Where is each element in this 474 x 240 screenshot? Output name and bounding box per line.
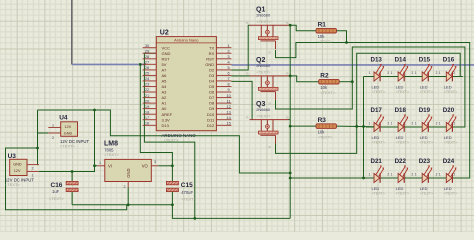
svg-text:D7: D7 (209, 95, 215, 100)
svg-text:VCC: VCC (162, 45, 171, 50)
junction VO to 5V blue (139, 63, 142, 66)
svg-text:AREF: AREF (162, 112, 173, 117)
connector U3 body (10, 159, 27, 175)
svg-text:A6: A6 (162, 73, 168, 78)
wire U2 D2 to Q1 (231, 25, 249, 70)
wire VO up to 5V blue (140, 64, 172, 165)
wire GND bottom rail (72, 204, 172, 206)
junction VO node (171, 164, 174, 167)
svg-text:1: 1 (415, 122, 417, 126)
svg-text:2: 2 (124, 185, 126, 189)
svg-text:1uF: 1uF (52, 189, 60, 194)
svg-text:18: 18 (145, 109, 149, 114)
wire R3 right to LED row2 (337, 125, 375, 128)
svg-text:D18: D18 (395, 107, 407, 114)
svg-text:R3: R3 (318, 117, 327, 124)
svg-text:1: 1 (52, 123, 54, 127)
U2 right pin 14 D11 (216, 119, 231, 121)
svg-text:1: 1 (415, 173, 417, 177)
wire GND blue from U2 GND pin to right edge (231, 64, 474, 66)
svg-text:470uF: 470uF (181, 190, 193, 195)
junction GND left column (36, 147, 39, 150)
junction C15 bottom at rail (171, 203, 174, 206)
svg-text:3: 3 (154, 160, 156, 164)
svg-text:VO: VO (142, 164, 149, 169)
U2 right pin 9 D6 (216, 91, 231, 93)
wire C16 bottom lead (71, 192, 73, 205)
svg-text:R2: R2 (320, 72, 329, 79)
junction Q1 drain (289, 24, 292, 27)
svg-text:D11: D11 (207, 117, 215, 122)
svg-text:D14: D14 (395, 56, 407, 63)
svg-text:D3: D3 (209, 73, 215, 78)
svg-text:5: 5 (228, 65, 230, 70)
U4 pin 2 (48, 132, 60, 134)
svg-text:D19: D19 (419, 107, 431, 114)
U2 right pin 4 GND (216, 63, 231, 65)
svg-text:17: 17 (145, 115, 149, 120)
svg-text:LED: LED (444, 84, 452, 89)
wire GND left loop to bottom rail (6, 148, 127, 210)
svg-text:12V: 12V (14, 169, 21, 173)
wire R1 right to gate node (337, 31, 347, 43)
svg-text:m: m (269, 51, 272, 55)
junction LED row3 feed (289, 177, 292, 180)
svg-text:2: 2 (453, 173, 455, 177)
svg-text:7: 7 (228, 76, 230, 81)
svg-text:D5: D5 (209, 84, 215, 89)
svg-text:1: 1 (369, 122, 371, 126)
U2 right pin 5 D2 (216, 69, 231, 71)
svg-text:8: 8 (228, 82, 230, 87)
junction R2 gate node (351, 80, 354, 83)
U2 right pin 11 D8 (216, 102, 231, 104)
U2 left pin 16 D13 (143, 124, 157, 126)
U2 left pin 30 VCC (143, 47, 157, 49)
svg-text:11: 11 (227, 98, 231, 103)
svg-text:D10: D10 (207, 112, 215, 117)
svg-text:2: 2 (436, 122, 438, 126)
svg-text:<TEXT>: <TEXT> (49, 196, 65, 201)
wire C16 top lead (71, 172, 73, 182)
capacitor C15 470uF (166, 181, 178, 184)
junction row2 gate riser (355, 125, 358, 128)
svg-text:LED: LED (372, 135, 380, 140)
svg-text:D16: D16 (443, 56, 455, 63)
junction 12V at U4 column (93, 109, 96, 112)
svg-text:22: 22 (145, 87, 149, 92)
junction LM8 GND at rail (127, 203, 130, 206)
svg-text:GND: GND (64, 131, 73, 135)
svg-text:1: 1 (391, 173, 393, 177)
U2 right pin 10 D7 (216, 97, 231, 99)
svg-text:1: 1 (369, 71, 371, 75)
svg-text:1: 1 (439, 71, 441, 75)
svg-text:2: 2 (387, 173, 389, 177)
junction 12V arrival (289, 172, 292, 175)
svg-text:GND: GND (205, 62, 214, 67)
svg-text:GND: GND (126, 168, 131, 177)
U2 right pin 7 D4 (216, 80, 231, 82)
U2 left pin 22 A3 (143, 91, 157, 93)
wire row1 feed (364, 76, 375, 78)
U3 pin 1 (27, 171, 39, 173)
svg-text:D21: D21 (371, 158, 383, 165)
svg-text:D13: D13 (162, 123, 170, 128)
svg-text:RX: RX (209, 51, 215, 56)
U2 left pin 24 A5 (143, 80, 157, 82)
wire LM8 GND to rail (127, 188, 129, 205)
svg-text:D23: D23 (419, 158, 431, 165)
svg-text:m: m (286, 21, 289, 25)
svg-text:13: 13 (226, 109, 230, 114)
junction R1 gate node (345, 41, 348, 44)
svg-text:<TEXT>: <TEXT> (164, 137, 180, 142)
svg-text:D15: D15 (419, 56, 431, 63)
svg-text:19: 19 (145, 104, 149, 109)
svg-text:LED: LED (396, 84, 404, 89)
U2 right pin 1 TX (216, 47, 231, 49)
wire to U4 pin 2 (38, 132, 49, 134)
svg-text:A4: A4 (162, 84, 168, 89)
svg-text:LED: LED (444, 135, 452, 140)
svg-text:28: 28 (145, 54, 149, 59)
svg-text:VI: VI (108, 164, 112, 169)
svg-text:2: 2 (228, 48, 230, 53)
svg-text:LED: LED (372, 186, 380, 191)
U2 right pin 13 D10 (216, 113, 231, 115)
U2 right pin 3 RST (216, 58, 231, 60)
svg-text:<TEXT>: <TEXT> (104, 152, 120, 157)
svg-text:U4: U4 (59, 114, 68, 121)
svg-text:3.3V: 3.3V (162, 117, 171, 122)
U2 left pin 26 A7 (143, 69, 157, 71)
svg-text:1: 1 (369, 173, 371, 177)
wire VO stub extension (158, 165, 172, 167)
svg-text:16: 16 (145, 121, 149, 126)
svg-text:RST: RST (162, 56, 171, 61)
svg-text:2: 2 (32, 166, 34, 170)
svg-text:2N6660: 2N6660 (256, 12, 271, 17)
svg-text:GND: GND (162, 51, 171, 56)
LM8 pin 1 VI (97, 165, 105, 167)
junction row3 left column (362, 177, 365, 180)
junction Q2 drain (289, 75, 292, 78)
svg-text:A1: A1 (162, 101, 168, 106)
svg-text:D17: D17 (371, 107, 383, 114)
svg-text:<TEXT>: <TEXT> (318, 134, 334, 139)
svg-text:D4: D4 (209, 79, 215, 84)
svg-text:26: 26 (145, 65, 149, 70)
wire U2 D4 to Q3 (231, 81, 252, 119)
wire U4 column down to U3 GND pin (38, 110, 39, 165)
LM8 pin 2 GND (127, 182, 129, 188)
svg-text:2: 2 (387, 122, 389, 126)
svg-text:<TEXT>: <TEXT> (318, 39, 334, 44)
U2 right pin 12 D9 (216, 108, 231, 110)
svg-text:<TEXT>: <TEXT> (320, 90, 336, 95)
svg-text:LED: LED (444, 186, 452, 191)
junction Q3 drain R3 tap (289, 125, 292, 128)
regulator LM8 7805 body (105, 159, 152, 181)
svg-text:m: m (269, 101, 272, 105)
svg-text:m: m (269, 145, 272, 149)
svg-text:<TEXT>: <TEXT> (396, 90, 409, 94)
svg-text:LED: LED (372, 84, 380, 89)
U2 right pin 8 D5 (216, 86, 231, 88)
svg-text:D8: D8 (209, 101, 215, 106)
wire Q2 gate loop to row2 right (276, 47, 465, 127)
svg-text:<TEXT>: <TEXT> (257, 71, 272, 75)
svg-text:GND: GND (13, 163, 22, 167)
svg-text:<TEXT>: <TEXT> (60, 144, 76, 149)
U3 pin 2 (27, 164, 39, 166)
svg-text:m: m (246, 72, 249, 76)
svg-text:m: m (286, 72, 289, 76)
svg-text:1: 1 (415, 71, 417, 75)
svg-text:2: 2 (52, 136, 54, 140)
svg-text:<TEXT>: <TEXT> (372, 191, 385, 195)
svg-text:1: 1 (391, 71, 393, 75)
U2 left pin 20 A1 (143, 102, 157, 104)
svg-text:2: 2 (453, 71, 455, 75)
svg-text:<TEXT>: <TEXT> (444, 140, 457, 144)
svg-text:D22: D22 (395, 158, 407, 165)
U2 right pin 15 D12 (216, 124, 231, 126)
wire 12V down to LM8 VI (95, 110, 98, 166)
connector U4 body (61, 122, 78, 137)
svg-text:<TEXT>: <TEXT> (372, 90, 385, 94)
U2 right pin 6 D3 (216, 74, 231, 76)
wire 12V U4 to LED area (38, 110, 291, 173)
svg-text:3: 3 (228, 54, 230, 59)
svg-text:LED: LED (420, 186, 428, 191)
capacitor C16 1uF (66, 181, 78, 184)
U2 right pin 2 RX (216, 52, 231, 54)
junction VI node (93, 164, 96, 167)
wire row3 feed (290, 177, 374, 179)
svg-text:A2: A2 (162, 95, 168, 100)
svg-text:2: 2 (453, 122, 455, 126)
U2 left pin 28 RST (143, 58, 157, 60)
wire Q2 drain to R2 (290, 76, 319, 82)
svg-text:<TEXT>: <TEXT> (396, 140, 409, 144)
svg-text:2: 2 (387, 71, 389, 75)
svg-text:<TEXT>: <TEXT> (257, 114, 272, 118)
svg-text:<TEXT>: <TEXT> (396, 191, 409, 195)
svg-text:<TEXT>: <TEXT> (420, 140, 433, 144)
svg-text:U2: U2 (160, 30, 169, 37)
svg-text:2: 2 (436, 173, 438, 177)
U2 left pin 29 GND (143, 52, 157, 54)
U2 left pin 18 AREF (143, 113, 157, 115)
svg-text:2N6660: 2N6660 (256, 63, 271, 68)
svg-text:<TEXT>: <TEXT> (372, 140, 385, 144)
U2 body (156, 37, 216, 131)
svg-text:m: m (246, 21, 249, 25)
svg-text:A3: A3 (162, 90, 168, 95)
wire 12V to U3 12V pin (39, 166, 95, 172)
wire U2 D3 to Q2 (231, 75, 249, 77)
svg-text:1: 1 (228, 43, 230, 48)
svg-text:R1: R1 (318, 21, 327, 28)
U2 left pin 19 A0 (143, 108, 157, 110)
svg-text:LED: LED (396, 135, 404, 140)
svg-text:D12: D12 (207, 123, 215, 128)
svg-text:LED: LED (420, 84, 428, 89)
wire GND bottom rail right (172, 205, 290, 219)
svg-text:A5: A5 (162, 79, 168, 84)
wire C15 top lead (171, 166, 173, 182)
junction row2 left column (362, 125, 365, 128)
svg-text:12: 12 (226, 104, 230, 109)
svg-text:23: 23 (145, 82, 149, 87)
wire Q3 drain to R3 (290, 125, 316, 127)
wire 5V blue to U2 5V pin (72, 63, 146, 65)
svg-text:Arduino Nano: Arduino Nano (174, 37, 199, 42)
svg-text:D2: D2 (209, 68, 215, 73)
svg-text:2: 2 (436, 71, 438, 75)
wire Q3 gate loop to row1 right (276, 53, 461, 153)
svg-text:A7: A7 (162, 68, 168, 73)
svg-text:U3: U3 (8, 153, 17, 160)
svg-text:LED: LED (396, 186, 404, 191)
U2 left pin 25 A6 (143, 74, 157, 76)
U2 left pin 21 A2 (143, 97, 157, 99)
svg-text:C15: C15 (181, 182, 193, 189)
svg-text:D24: D24 (443, 158, 455, 165)
svg-text:1: 1 (439, 122, 441, 126)
svg-text:LM8: LM8 (104, 140, 118, 147)
wire R2 right to gate node (337, 81, 352, 83)
svg-text:D13: D13 (371, 56, 383, 63)
svg-text:2: 2 (412, 173, 414, 177)
svg-text:2: 2 (412, 122, 414, 126)
U2 left pin 23 A4 (143, 86, 157, 88)
wire Q1 drain to R1 (290, 25, 316, 31)
svg-text:27: 27 (145, 60, 149, 65)
svg-text:29: 29 (145, 48, 149, 53)
svg-text:1: 1 (391, 122, 393, 126)
svg-text:2N6660: 2N6660 (256, 107, 271, 112)
junction GND W2 at rail (193, 217, 196, 220)
svg-text:D9: D9 (209, 106, 215, 111)
svg-text:2: 2 (412, 71, 414, 75)
svg-text:<TEXT>: <TEXT> (444, 90, 457, 94)
svg-text:<TEXT>: <TEXT> (181, 197, 197, 202)
svg-text:RST: RST (206, 56, 215, 61)
svg-text:1: 1 (439, 173, 441, 177)
wire Q1 gate loop to row3 right (276, 43, 470, 179)
svg-text:D6: D6 (209, 90, 215, 95)
svg-text:15: 15 (226, 121, 230, 126)
svg-text:<TEXT>: <TEXT> (420, 191, 433, 195)
svg-text:A0: A0 (162, 106, 168, 111)
svg-text:12V: 12V (65, 125, 72, 129)
wire from top edge down to 5V net (71, 0, 73, 64)
wire drain chain vertical (289, 25, 291, 218)
wire LED left column (363, 77, 365, 179)
svg-text:5V: 5V (162, 62, 167, 67)
svg-text:m: m (286, 115, 289, 119)
svg-text:<TEXT>: <TEXT> (257, 20, 272, 24)
U4 pin 1 (48, 127, 60, 129)
svg-text:9: 9 (228, 87, 230, 92)
svg-text:TX: TX (209, 45, 214, 50)
junction C16 top tap (71, 170, 74, 173)
LM8 pin 3 VO (151, 165, 158, 167)
svg-text:21: 21 (145, 93, 149, 98)
svg-text:m: m (246, 115, 249, 119)
wire C15 bottom lead (171, 192, 173, 205)
svg-text:D20: D20 (443, 107, 455, 114)
svg-text:<TEXT>: <TEXT> (444, 191, 457, 195)
svg-text:<TEXT>: <TEXT> (420, 90, 433, 94)
svg-text:25: 25 (145, 71, 149, 76)
svg-text:6: 6 (228, 71, 230, 76)
svg-text:<TEXT>: <TEXT> (5, 182, 21, 187)
svg-text:LED: LED (420, 135, 428, 140)
U2 left pin 27 5V (143, 63, 157, 65)
U2 left pin 17 3.3V (143, 119, 157, 121)
wire GND from U2 pin29 to rail (144, 53, 194, 218)
svg-text:1: 1 (99, 161, 101, 165)
